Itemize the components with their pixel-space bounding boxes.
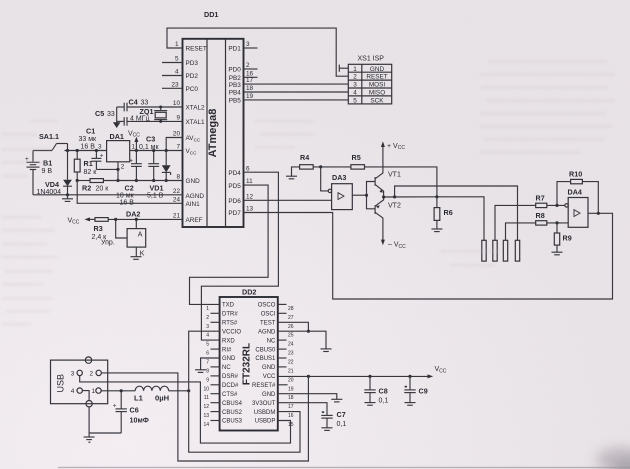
wire USB pin4 to shield and ground rail: [82, 391, 89, 433]
wire L1 to VBUS node: [169, 389, 191, 392]
wire DA3 inverting input from R4/R5 node: [321, 167, 329, 191]
photodetector DA2: [126, 210, 146, 248]
ground at AGND: [321, 349, 332, 352]
ground at DD2 pin18: [331, 399, 342, 402]
Vcc arrow left at R3: [68, 217, 91, 225]
transistor VT2: [375, 197, 401, 240]
wire PD5 to DD2 TXD: [190, 185, 269, 304]
wire RESET net: DD1 pin1 to XS1 pin2 over the top: [167, 28, 348, 76]
transistor VT1: [375, 171, 401, 198]
wire DD1 pin5 PD3 stub: [162, 62, 183, 64]
wire R10 feedback path: [557, 182, 598, 214]
capacitor C3 0.1uF: [139, 135, 159, 183]
wire DD1 pin4 PD2 stub: [162, 75, 183, 77]
ground at R6: [431, 229, 442, 232]
ground at R9: [552, 252, 563, 255]
DD2 left pin numbers: [203, 306, 209, 428]
wire Upr control branch to DA2: [101, 219, 127, 246]
-Vcc arrow: [381, 240, 406, 250]
USB connector: [51, 357, 108, 407]
wire Vcc rail DA1 to DD1 pin7: [130, 150, 183, 152]
wire XS1 pin1 GND stub with tick: [339, 65, 348, 72]
wire VCCIO to VBUS node: [189, 331, 220, 391]
wire emitter output row to R6: [382, 195, 439, 198]
resistor R6: [434, 197, 453, 229]
ground at C7: [322, 428, 333, 431]
wire USB pin2 D- to DD2 VCC loop (outer): [101, 373, 308, 461]
IC DD2 FT232RL body: [220, 288, 278, 431]
capacitor C1 33uF 16V: [79, 127, 119, 170]
capacitor C4 33 on XTAL2 line: [117, 97, 183, 111]
diode VD4 1N4004: [37, 151, 72, 197]
wire R5 right to R6 branch: [365, 167, 437, 197]
sensor resistor 4: [515, 240, 519, 261]
wire DD1 pin3 PD1 stub: [244, 47, 258, 49]
wire MISO net: PB4 to XS1 pin4: [244, 91, 349, 93]
sensor resistor 3: [503, 240, 507, 261]
capacitor C6 10uF: [113, 391, 149, 433]
resistor R9: [554, 223, 571, 252]
wire VBUS node to DD2 USBDM loop (middle): [189, 391, 300, 452]
wire DA1 pin2 to GND row: [116, 162, 119, 182]
wire sensor resistor 3 to R8: [506, 223, 536, 240]
resistor R10: [569, 170, 582, 184]
sensor resistor 2: [493, 240, 497, 261]
wire R7 to DA4 inverting input: [547, 204, 565, 207]
ground at VD4: [62, 195, 73, 202]
capacitor C8 0.1: [364, 376, 388, 404]
capacitor C5 33 on XTAL1 line: [95, 109, 183, 126]
wire output step to follower output line: [395, 186, 518, 240]
wire R8 to DA4 non-inverting input: [547, 221, 568, 224]
ground at USB: [84, 433, 95, 442]
wire GND row: R1 bottom through R2 to DD1 pin8: [76, 179, 183, 182]
wire R6 node to sensor resistor 1: [437, 197, 484, 241]
DD2 right pin numbers: [288, 306, 294, 428]
sensor resistor 1: [482, 240, 486, 261]
DD2 left pin labels: [222, 303, 243, 425]
ground at C8: [365, 403, 376, 406]
wire C4/C5 common leg: [116, 107, 118, 123]
resistor R7: [536, 194, 547, 208]
voltage regulator DA1: [98, 132, 136, 171]
IC DD1 ATmega8 body: [183, 39, 244, 227]
wire AIN1 net: divider node to DD1 pin24: [77, 181, 182, 204]
DD2 right pin stubs: [278, 304, 288, 384]
wire AREF row: [88, 218, 183, 221]
capacitor C2 10uF 16V: [116, 151, 142, 207]
wire MOSI net: PB3 to XS1 pin3: [244, 83, 349, 85]
capacitor C7 0.1 on 3V3OUT: [278, 403, 347, 429]
wire PD6 to DA3 input: [244, 199, 332, 201]
resistor R4: [292, 153, 314, 176]
resistor R2 20k: [82, 179, 109, 193]
op-amp DA3: [328, 173, 352, 209]
ground at C9: [405, 403, 416, 406]
DD2 left pin stubs: [211, 313, 220, 420]
wire DD1 pin2 PD0 stub: [244, 68, 258, 70]
wire DA4 output to PD7: [244, 212, 613, 299]
wire DD2 left GND pin7 to ground: [201, 358, 220, 370]
wire DD2 VCC rail to Vcc arrow: [278, 366, 447, 378]
ground at DD2 pin7: [195, 370, 206, 373]
node switch/VD4: [66, 149, 69, 152]
inductor L1: [134, 386, 169, 402]
Vcc arrow above rail: [128, 130, 140, 152]
wire PD4 to DD2 RXD: [201, 172, 278, 340]
resistor R8: [536, 211, 547, 225]
DD1 right pin numbers: [246, 41, 254, 213]
DD1 left pin numbers: [171, 41, 180, 219]
wire SCK net: PB5 to XS1 pin5: [244, 99, 349, 101]
zener diode VD1 5.1V: [147, 151, 171, 200]
wire DD1 pin23 PC0 stub: [162, 87, 183, 89]
op-amp DA4: [565, 188, 588, 228]
wire Vcc rail battery-to-DA1: [65, 150, 107, 152]
wire DD2 TEST to AGND: [278, 322, 310, 333]
wire USB pin3 D+ to DD2 USBDP loop: [80, 376, 291, 444]
wire DD2 AGND to ground: [278, 331, 326, 349]
wire USB ground rail: [89, 432, 121, 434]
crystal ZQ1 4 MHz: [130, 106, 167, 123]
wire DD1 pin16 PB2 stub: [244, 76, 258, 78]
DD2 right pin labels: [252, 303, 276, 425]
capacitor C9: [404, 376, 427, 402]
ground at R4: [286, 176, 297, 179]
connector XS1 ISP: [348, 56, 391, 105]
wire DD2 right GND pin18 to ground: [278, 394, 337, 399]
ground at C4/C5: [113, 122, 121, 128]
wire sensor resistor 2 to R7: [495, 205, 536, 240]
DD1 left pin labels: [186, 46, 207, 225]
DA2 cathode lead K and ground: [131, 247, 145, 259]
wire DA3 output to transistor bases: [352, 182, 375, 209]
wire battery minus rail to DD1 AGND: [33, 194, 183, 196]
resistor R5: [351, 153, 365, 169]
wire USB pin1 VBUS to L1: [101, 389, 135, 392]
wire R4-R5 node: [313, 165, 351, 168]
+Vcc arrow: [381, 141, 405, 170]
switch SA1.1: [33, 132, 68, 151]
battery B1 9V: [25, 151, 52, 195]
resistor R3 2.4k: [92, 218, 109, 241]
wire AVcc step: DD1 pin20 to rail: [165, 138, 183, 153]
DD1 right pin labels: [228, 46, 241, 218]
resistor R1 82k: [74, 149, 97, 181]
